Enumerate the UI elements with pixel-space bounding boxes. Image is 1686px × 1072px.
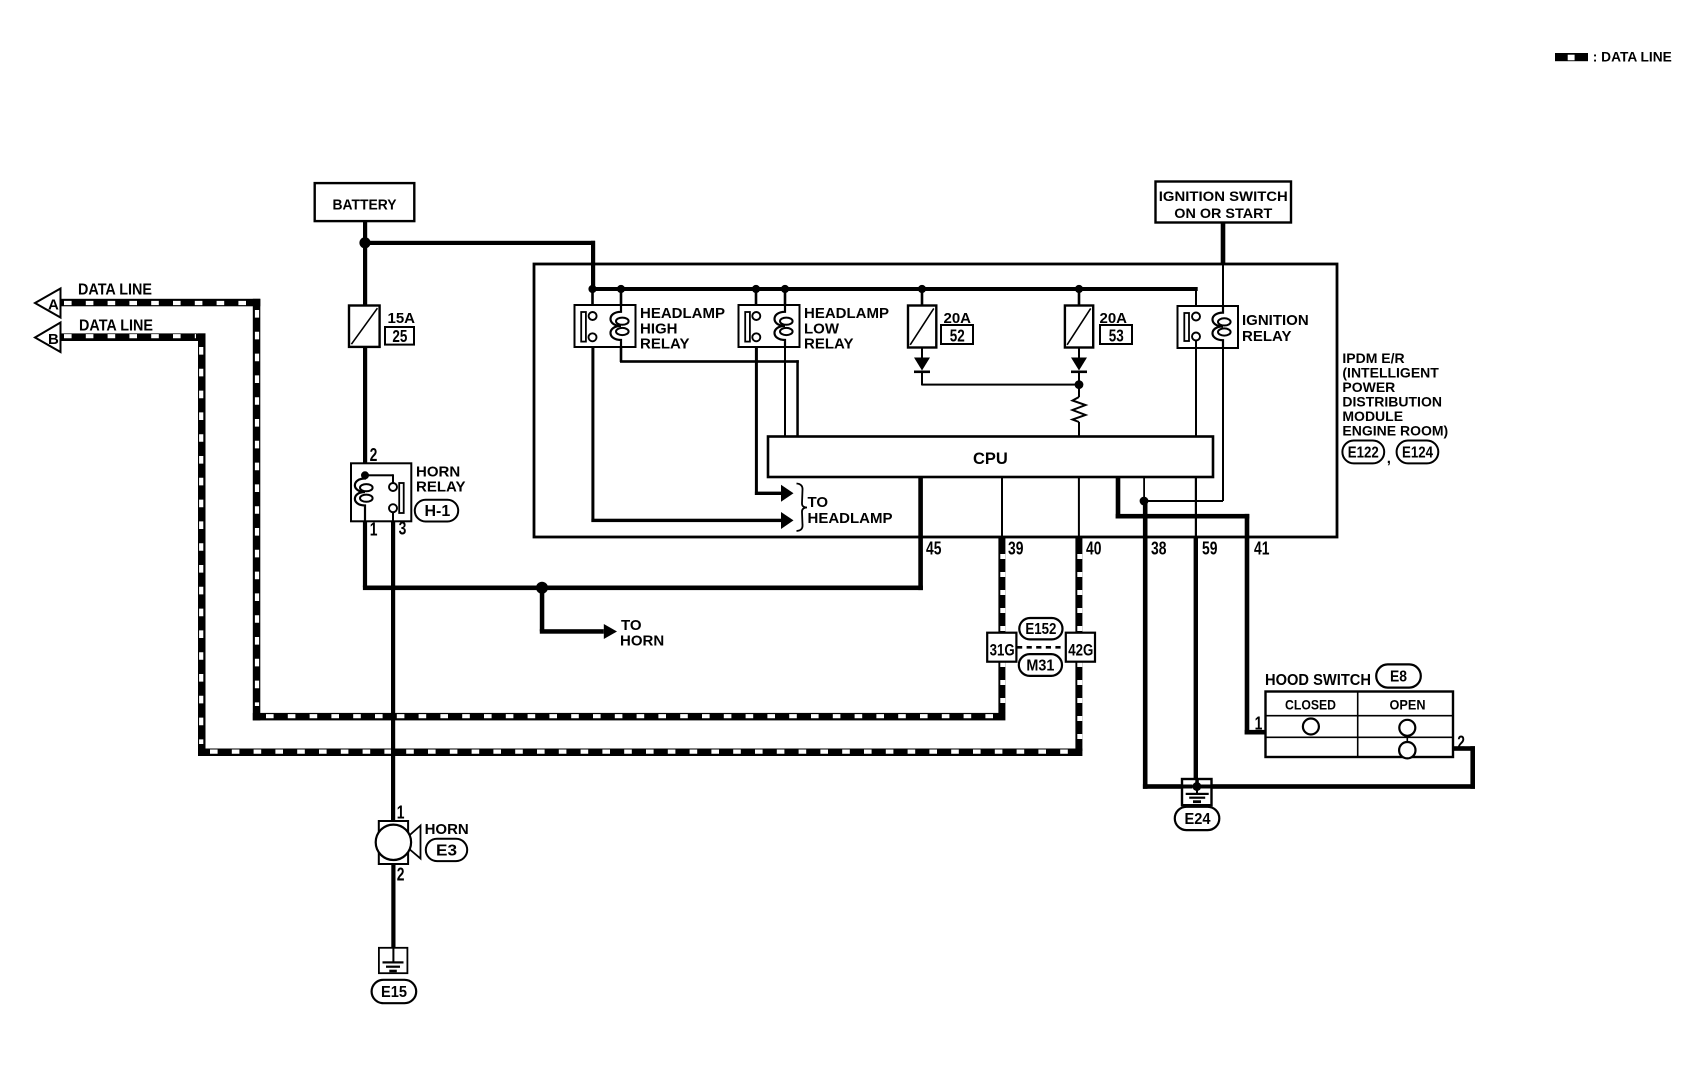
svg-text:IGNITION SWITCH: IGNITION SWITCH	[1159, 188, 1288, 204]
junction: bus at headlamp low relay coil	[781, 285, 789, 293]
ground E15	[372, 948, 417, 1003]
svg-text:E152: E152	[1025, 621, 1056, 638]
svg-text:1: 1	[1255, 713, 1263, 733]
wire: ignition relay coil to CPU node	[1222, 348, 1224, 501]
junction: diode node	[1075, 380, 1084, 389]
wire: horn relay pin 3 to horn	[391, 521, 395, 823]
junction: bus at headlamp high relay contact	[588, 285, 596, 293]
wire: ignition relay contact to CPU	[1195, 340, 1197, 437]
svg-text:CLOSED: CLOSED	[1285, 697, 1336, 713]
connector 42G	[1066, 633, 1095, 662]
svg-text:15A: 15A	[388, 310, 416, 327]
junction: ignition relay coil / pin 38 node	[1140, 497, 1149, 506]
svg-text:E3: E3	[436, 843, 457, 860]
svg-text:H-1: H-1	[425, 503, 451, 520]
svg-text:52: 52	[950, 327, 965, 346]
legend: data line sample	[1555, 49, 1672, 65]
ignition switch box	[1156, 182, 1292, 223]
CPU box	[768, 437, 1213, 478]
node A: data line A arrow	[35, 289, 61, 318]
wire: battery feed to IPDM	[363, 241, 595, 245]
svg-text:41: 41	[1254, 539, 1269, 559]
dashed link between 31G and 42G	[1017, 646, 1066, 649]
wire: ground bus at E24	[1143, 784, 1475, 789]
svg-text:RELAY: RELAY	[1242, 328, 1291, 345]
svg-text:42G: 42G	[1068, 641, 1093, 660]
svg-text:25: 25	[392, 327, 407, 346]
svg-text:HORN: HORN	[425, 821, 469, 838]
svg-text:A: A	[48, 297, 59, 314]
diode D2 below fuse 53	[1071, 347, 1087, 386]
wire: CPU pin 41 to hood switch	[1116, 477, 1121, 519]
wire: hood switch pin 2 to ground	[1453, 746, 1475, 751]
svg-text:TO: TO	[808, 494, 829, 511]
wire: data line B vertical run	[198, 333, 206, 756]
diode D1 below fuse 52	[914, 347, 930, 386]
svg-text:RELAY: RELAY	[804, 336, 853, 353]
svg-text:2: 2	[397, 865, 405, 885]
wire and arrow: TO HORN	[540, 587, 664, 649]
wire: data line vertical at pin 39	[998, 537, 1005, 713]
relay U1: HEADLAMP HIGH RELAY	[575, 305, 726, 353]
wire: diode D1 to diode D2 junction	[922, 384, 1079, 386]
battery B+ wire down to horn relay	[363, 222, 367, 463]
resistor R1	[1073, 386, 1086, 437]
svg-text:E124: E124	[1402, 445, 1433, 462]
relay U2: HEADLAMP LOW RELAY	[739, 305, 890, 353]
wire: CPU pin 40	[1078, 477, 1080, 537]
label: IPDM E/R block name	[1342, 350, 1448, 439]
svg-text:31G: 31G	[990, 641, 1015, 660]
svg-text:M31: M31	[1026, 658, 1054, 675]
svg-text:ON OR START: ON OR START	[1174, 205, 1272, 221]
connector M31	[1019, 654, 1062, 676]
wire: horn relay pin 1 to CPU 45	[363, 521, 367, 587]
connector E122	[1342, 441, 1384, 464]
brace and label TO HEADLAMP	[797, 484, 893, 532]
junction: bus at headlamp low relay contact	[752, 285, 760, 293]
svg-text:39: 39	[1008, 539, 1023, 559]
svg-text:: DATA LINE: : DATA LINE	[1593, 49, 1672, 65]
junction: bus at fuse 52	[918, 285, 926, 293]
wire: CPU pin 39	[1001, 477, 1003, 537]
wire: high relay coil to CPU	[620, 348, 623, 362]
connector E152	[1019, 618, 1062, 639]
horn E3	[376, 821, 469, 864]
ground E24	[1175, 779, 1220, 830]
svg-text:BATTERY: BATTERY	[333, 197, 397, 214]
svg-text:B: B	[48, 331, 59, 348]
relay K1: HORN RELAY	[351, 463, 465, 521]
svg-text:53: 53	[1109, 327, 1124, 346]
wire: ignition switch to ignition relay coil	[1221, 222, 1226, 264]
svg-text:RELAY: RELAY	[640, 336, 689, 353]
wire: data line B horizontal run	[62, 333, 206, 341]
wire: CPU pin 59 to ground	[1195, 477, 1197, 537]
svg-text:40: 40	[1086, 539, 1101, 559]
svg-text:1: 1	[397, 803, 405, 823]
junction: bus at headlamp high relay coil	[617, 285, 625, 293]
svg-text:IGNITION: IGNITION	[1242, 312, 1309, 329]
svg-text:2: 2	[1457, 733, 1465, 753]
svg-text:1: 1	[370, 520, 378, 540]
wire: data line vertical at pin 40	[1075, 537, 1082, 751]
relay U3: IGNITION RELAY	[1178, 306, 1309, 348]
svg-text:59: 59	[1202, 539, 1217, 559]
svg-text:E24: E24	[1185, 811, 1211, 828]
junction: horn feed node	[536, 582, 548, 594]
wire: IPDM internal power bus	[590, 287, 1198, 291]
connector 31G	[987, 633, 1016, 662]
svg-text:HOOD SWITCH: HOOD SWITCH	[1265, 672, 1371, 689]
connector E124	[1397, 441, 1439, 464]
wire: data line run from A to IPDM pin 39	[253, 713, 1006, 721]
wire: pin 38 to ground	[1143, 500, 1148, 789]
svg-text:HORN: HORN	[620, 632, 664, 649]
wire: data line run from B to IPDM pin 40	[198, 749, 1082, 757]
wire: high relay contact output to headlamp	[591, 341, 594, 522]
fuse F53: 20A [53]	[1065, 306, 1132, 348]
battery box	[315, 183, 415, 221]
arrow: low relay output to headlamp	[781, 485, 794, 502]
wire: data line A vertical run	[253, 299, 260, 721]
svg-text:DATA LINE: DATA LINE	[78, 282, 152, 299]
svg-text:2: 2	[370, 445, 378, 465]
svg-text:E122: E122	[1348, 445, 1379, 462]
svg-text:RELAY: RELAY	[416, 479, 465, 496]
wire: low relay coil to CPU	[784, 348, 786, 437]
svg-text:E15: E15	[381, 984, 407, 1001]
hood switch E8	[1265, 664, 1453, 758]
svg-text:,: ,	[1387, 450, 1391, 467]
svg-text:HEADLAMP: HEADLAMP	[808, 510, 893, 527]
svg-text:45: 45	[926, 539, 941, 559]
svg-text:3: 3	[399, 519, 407, 539]
wire: low relay contact output to headlamp	[755, 341, 758, 495]
svg-text:ENGINE ROOM): ENGINE ROOM)	[1342, 423, 1448, 439]
svg-text:E8: E8	[1390, 669, 1407, 686]
arrow: high relay output to headlamp	[781, 512, 794, 529]
svg-text:38: 38	[1151, 539, 1166, 559]
junction: battery node	[359, 237, 370, 248]
node B: data line B arrow	[35, 323, 61, 353]
wire: horn to ground E15	[391, 864, 395, 948]
wire: CPU pin 45 to horn relay coil	[918, 477, 923, 590]
svg-text:OPEN: OPEN	[1390, 697, 1426, 713]
junction: bus at fuse 53	[1075, 285, 1083, 293]
wire: data line A horizontal run	[62, 299, 261, 307]
svg-text:DATA LINE: DATA LINE	[79, 318, 153, 335]
fuse 15A / 25	[349, 306, 415, 347]
fuse F52: 20A [52]	[908, 306, 973, 348]
IPDM E/R outer box	[534, 264, 1337, 537]
svg-text:CPU: CPU	[973, 450, 1008, 468]
